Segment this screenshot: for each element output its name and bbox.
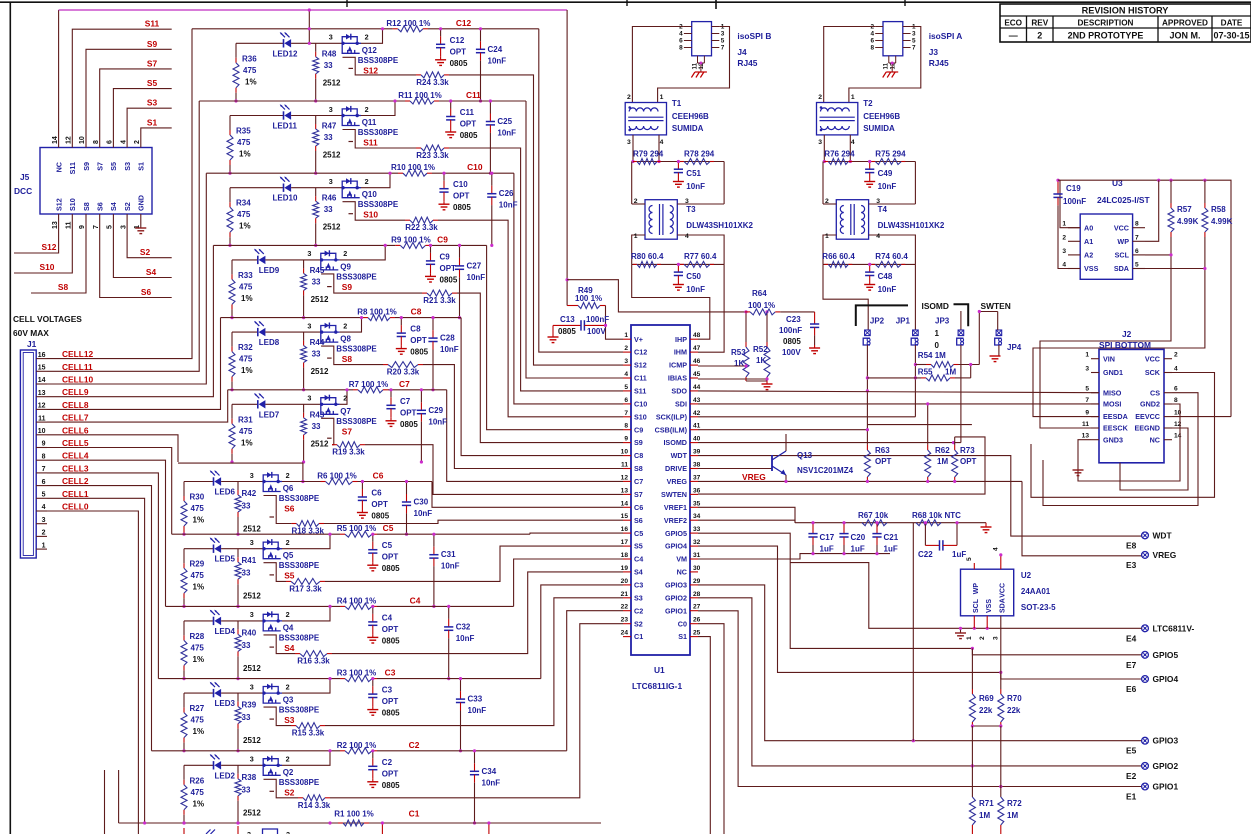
J5 GND pin wire: [140, 214, 142, 228]
jumper JP3: [960, 311, 962, 330]
svg-text:23: 23: [621, 617, 629, 624]
wire net S11: [72, 29, 171, 147]
resistor R22 3.3k: [405, 219, 410, 221]
svg-text:R68 10k NTC: R68 10k NTC: [912, 511, 961, 520]
svg-text:13: 13: [1082, 433, 1090, 440]
svg-text:APPROVED: APPROVED: [1162, 19, 1208, 28]
svg-text:475: 475: [239, 282, 253, 291]
wire net S8 to U1 pin 11: [423, 365, 623, 469]
svg-text:BSS308PE: BSS308PE: [336, 417, 377, 426]
svg-text:07-30-15: 07-30-15: [1213, 31, 1249, 41]
svg-text:3: 3: [250, 755, 254, 764]
svg-text:475: 475: [191, 643, 205, 652]
wire net C10 rail: [206, 172, 398, 174]
svg-text:R3 100 1%: R3 100 1%: [337, 669, 377, 678]
wire LED row 9: [232, 259, 258, 261]
svg-text:21: 21: [621, 591, 629, 598]
svg-text:1%: 1%: [241, 366, 253, 375]
svg-text:5: 5: [721, 38, 725, 45]
svg-text:OPT: OPT: [440, 264, 457, 273]
svg-text:JP1: JP1: [896, 317, 911, 326]
wire V+ branch to R64: [567, 280, 745, 312]
svg-text:475: 475: [191, 571, 205, 580]
wire: [221, 620, 263, 622]
svg-text:C32: C32: [456, 622, 471, 631]
svg-text:4.99K: 4.99K: [1211, 217, 1233, 226]
svg-text:2512: 2512: [243, 664, 261, 673]
wire CELL10 riser: [47, 173, 206, 384]
wire net S4 to U1 pin 19: [332, 572, 623, 654]
svg-text:4: 4: [1174, 366, 1178, 373]
svg-text:R10 100 1%: R10 100 1%: [391, 163, 435, 172]
resistor R21 3.3k: [422, 292, 427, 294]
svg-text:100V: 100V: [782, 348, 801, 357]
svg-text:CELL7: CELL7: [62, 413, 89, 423]
resistor R4 100 1%: [340, 605, 345, 607]
U1 pin 39 WDT: [690, 455, 698, 457]
wire net S1: [141, 128, 172, 148]
svg-text:OPT: OPT: [382, 625, 399, 634]
svg-text:1: 1: [660, 94, 664, 101]
wire net C3 rail right: [377, 678, 541, 680]
LED2: [213, 761, 215, 769]
svg-text:2512: 2512: [323, 78, 341, 87]
svg-text:4: 4: [993, 547, 1000, 551]
wire: [221, 692, 263, 694]
svg-text:ISOMD: ISOMD: [663, 438, 687, 447]
bracket ISOMD: [856, 305, 908, 326]
svg-text:E5: E5: [1126, 746, 1137, 756]
svg-text:R54 1M: R54 1M: [918, 351, 946, 360]
svg-text:33: 33: [242, 502, 251, 511]
svg-text:33: 33: [312, 350, 321, 359]
svg-text:C33: C33: [468, 695, 483, 704]
svg-text:39: 39: [693, 449, 701, 456]
wire net C12 rail right: [428, 28, 539, 30]
wire J4 pin1 to T1: [658, 27, 730, 103]
wire net GPIO5: [698, 533, 1142, 655]
resistor R75: [871, 161, 875, 163]
svg-text:S8: S8: [58, 282, 69, 292]
svg-text:CELL4: CELL4: [62, 451, 89, 461]
svg-text:JON M.: JON M.: [1169, 31, 1200, 41]
ground R52: [766, 381, 768, 384]
pad E8 WDT: [1142, 532, 1149, 539]
wire net S4 gate rail: [264, 635, 296, 654]
wire net S12 to U1 pin 3: [449, 75, 623, 365]
capacitor C9 OPT 0805: [430, 245, 432, 253]
transistor Q8 BSS308PE: [321, 326, 336, 333]
resistor R53 1K: [745, 312, 747, 342]
U3 pin 6 SCL: [1133, 254, 1145, 256]
svg-text:45: 45: [693, 371, 701, 378]
wire: [265, 331, 320, 333]
svg-text:R8 100 1%: R8 100 1%: [357, 308, 397, 317]
resistor R39 33 2512: [237, 693, 239, 702]
capacitor C49 10nF: [869, 162, 871, 170]
U1 pin 13 S7: [623, 493, 631, 495]
wire net GPIO4: [698, 546, 1142, 679]
wire net S5: [113, 89, 171, 148]
svg-text:SDA: SDA: [1114, 264, 1129, 273]
svg-text:1%: 1%: [239, 222, 251, 231]
transistor Q6 BSS308PE: [263, 475, 278, 482]
LED3: [213, 689, 215, 697]
svg-text:R53: R53: [731, 348, 746, 357]
resistor R74: [871, 263, 875, 265]
svg-text:1uF: 1uF: [851, 545, 865, 554]
svg-text:2: 2: [624, 345, 628, 352]
svg-text:OPT: OPT: [410, 336, 427, 345]
svg-text:C29: C29: [428, 406, 443, 415]
resistor R67 10k: [862, 520, 887, 526]
svg-text:R75 294: R75 294: [875, 150, 906, 159]
U1 pin 28 GPIO2: [690, 597, 698, 599]
svg-text:S5: S5: [284, 571, 295, 581]
svg-text:10nF: 10nF: [497, 129, 516, 138]
svg-text:10nF: 10nF: [456, 634, 475, 643]
wire net S11 to U1 pin 5: [449, 148, 623, 391]
wire net C4 rail: [166, 605, 341, 607]
J1 pin 10: [36, 434, 47, 436]
resistor R54 1M: [915, 364, 926, 366]
resistor R33 475 1%: [231, 260, 233, 275]
svg-text:C3: C3: [385, 668, 396, 678]
resistor R62 1M: [927, 445, 929, 450]
U1 pin 15 S6: [623, 519, 631, 521]
svg-text:2512: 2512: [243, 592, 261, 601]
capacitor C50 10nF: [677, 264, 679, 272]
wire rail R79: [632, 161, 724, 163]
svg-text:1: 1: [825, 233, 829, 240]
svg-text:C17: C17: [820, 533, 835, 542]
svg-text:isoSPI B: isoSPI B: [737, 31, 771, 41]
resistor R2 100 1%: [340, 750, 345, 752]
wire: [221, 764, 263, 766]
wire Q13 emitter: [785, 475, 787, 481]
LED12: [283, 39, 285, 47]
svg-text:1uF: 1uF: [952, 550, 966, 559]
U1 pin 22 C2: [623, 610, 631, 612]
svg-text:Q6: Q6: [283, 484, 294, 493]
svg-text:S8: S8: [82, 202, 91, 211]
wire net C6 rail: [178, 463, 303, 481]
page border left: [9, 2, 11, 834]
wire net V+ vertical: [566, 10, 568, 306]
wire net VREF1: [698, 507, 795, 522]
wire net S3 to U1 pin 21: [325, 598, 623, 726]
svg-text:0805: 0805: [382, 636, 400, 645]
wire rail R66: [823, 263, 915, 265]
svg-text:5: 5: [107, 225, 114, 229]
svg-text:3: 3: [250, 682, 254, 691]
svg-text:CSB(ILM): CSB(ILM): [655, 425, 688, 434]
svg-text:LED4: LED4: [215, 627, 236, 636]
U1 pin 1 V+: [623, 338, 631, 340]
J1 pin 12: [36, 408, 47, 410]
resistor R32 475 1%: [231, 332, 233, 347]
svg-text:2: 2: [1037, 31, 1042, 41]
wire net C4 rail right: [377, 605, 514, 607]
svg-text:GPIO1: GPIO1: [665, 606, 687, 615]
resistor R64 100 1%: [745, 311, 750, 313]
wire: [914, 162, 916, 205]
U1 pin 48 IHP: [690, 338, 698, 340]
svg-text:2: 2: [343, 321, 347, 330]
wire net C10 rail right: [432, 172, 514, 174]
svg-text:3: 3: [912, 31, 916, 38]
wire CELL3 dropper: [47, 473, 158, 679]
svg-text:3: 3: [1062, 248, 1066, 255]
ground C12: [440, 57, 442, 60]
ground C2: [372, 779, 374, 782]
wire LED row 2: [184, 764, 214, 766]
wire V+ to U1 pin 1: [606, 306, 624, 340]
J2 pin 12 EEGND: [1164, 427, 1172, 429]
wire: [265, 403, 320, 405]
svg-text:4: 4: [624, 371, 628, 378]
svg-text:0805: 0805: [460, 131, 478, 140]
svg-text:C3: C3: [634, 581, 643, 590]
svg-text:3: 3: [818, 139, 822, 146]
wire: [221, 481, 263, 483]
svg-text:S7: S7: [634, 490, 643, 499]
wire: [265, 259, 320, 261]
svg-text:R39: R39: [242, 701, 257, 710]
pad E7 GPIO5: [1142, 651, 1149, 658]
wire net S10: [14, 214, 72, 273]
U1 pin 2 C12: [623, 351, 631, 353]
svg-text:38: 38: [693, 462, 701, 469]
ground C8: [400, 346, 402, 349]
LED9: [257, 256, 259, 264]
svg-text:5: 5: [1085, 386, 1089, 393]
resistor R40 33 2512: [237, 621, 239, 630]
wire net C11 to U1 pin 4: [526, 101, 623, 378]
svg-text:Q5: Q5: [283, 551, 294, 560]
svg-text:35: 35: [693, 500, 701, 507]
ground JP4: [990, 355, 1001, 357]
U2 pin 2 VSS: [986, 616, 988, 629]
svg-text:BSS308PE: BSS308PE: [336, 345, 377, 354]
svg-text:18: 18: [621, 552, 629, 559]
svg-text:1%: 1%: [193, 655, 205, 664]
capacitor C5 OPT 0805: [372, 534, 374, 542]
svg-text:5: 5: [966, 557, 973, 561]
transistor Q7 BSS308PE: [321, 398, 336, 405]
svg-text:C4: C4: [382, 613, 393, 622]
wire net EEGND: [1120, 428, 1188, 490]
svg-text:36: 36: [693, 487, 701, 494]
svg-text:R22 3.3k: R22 3.3k: [405, 223, 438, 232]
svg-text:2: 2: [343, 249, 347, 258]
wire net S2: [127, 214, 172, 258]
resistor R76: [824, 161, 828, 163]
wire net S6 gate rail: [264, 496, 292, 524]
svg-text:OPT: OPT: [382, 697, 399, 706]
svg-text:10: 10: [38, 428, 46, 435]
U1 pin 25 S1: [690, 636, 698, 638]
wire: [221, 548, 263, 550]
svg-text:WDT: WDT: [1153, 530, 1173, 540]
wire mid run: [867, 424, 972, 426]
svg-text:100nF: 100nF: [1063, 197, 1086, 206]
wire net WDT: [698, 456, 1142, 536]
svg-text:24: 24: [621, 630, 629, 637]
wire net SWTEN run: [698, 437, 985, 494]
svg-text:SCL: SCL: [973, 598, 980, 613]
wire R62 top: [927, 404, 929, 445]
ground C7: [390, 418, 392, 421]
svg-text:10nF: 10nF: [428, 417, 447, 426]
wire: [869, 203, 916, 205]
wire net GPIO2: [698, 598, 1142, 766]
transistor Q2 BSS308PE: [263, 759, 278, 766]
U1 pin 44 SDO: [690, 390, 698, 392]
svg-text:S8: S8: [634, 464, 643, 473]
svg-text:43: 43: [693, 397, 701, 404]
svg-text:9: 9: [624, 436, 628, 443]
svg-text:RJ45: RJ45: [737, 58, 757, 68]
resistor R57 4.99K: [1170, 180, 1172, 203]
U1 pin 20 C3: [623, 584, 631, 586]
svg-text:3: 3: [329, 105, 333, 114]
svg-text:WDT: WDT: [671, 451, 688, 460]
svg-text:4: 4: [851, 139, 855, 146]
svg-text:16: 16: [38, 352, 46, 359]
svg-text:R73: R73: [960, 446, 975, 455]
wire net CSB: [698, 429, 867, 431]
svg-text:R36: R36: [242, 54, 257, 63]
wire net S2 gate rail: [264, 779, 299, 798]
wire LED row 11: [230, 115, 284, 117]
U3 pin 5 SDA: [1133, 268, 1145, 270]
svg-text:R34: R34: [236, 199, 251, 208]
resistor R47 33 2512: [315, 116, 317, 125]
wire net S10 gate rail: [343, 202, 406, 221]
svg-text:R2 100 1%: R2 100 1%: [337, 741, 377, 750]
svg-text:C5: C5: [634, 529, 643, 538]
wire CELL6 dropper: [47, 435, 178, 462]
svg-text:J5: J5: [20, 172, 30, 182]
svg-text:28: 28: [693, 591, 701, 598]
svg-text:C30: C30: [414, 498, 429, 507]
U1 pin 10 C8: [623, 455, 631, 457]
capacitor C10 OPT 0805: [443, 173, 445, 181]
svg-text:2: 2: [634, 198, 638, 205]
wire net C10 to U1 pin 6: [514, 173, 623, 404]
svg-text:R30: R30: [190, 493, 205, 502]
wire column down: [971, 726, 973, 797]
svg-text:33: 33: [242, 785, 251, 794]
pad E6 GPIO4: [1142, 676, 1149, 683]
transformer T3 DLW43SH101XK2: [645, 200, 677, 240]
J2 pin 8 GND2: [1164, 403, 1172, 405]
svg-text:14: 14: [52, 136, 59, 144]
svg-text:T1: T1: [672, 99, 682, 108]
svg-text:2: 2: [286, 682, 290, 691]
svg-text:SWTEN: SWTEN: [661, 490, 687, 499]
U1 pin 21 S3: [623, 597, 631, 599]
svg-text:3: 3: [876, 198, 880, 205]
wire J3 pin1 to T2: [849, 27, 921, 103]
svg-text:30: 30: [693, 565, 701, 572]
wire net C9 rail: [213, 244, 395, 246]
svg-text:3: 3: [329, 33, 333, 42]
svg-text:25: 25: [693, 630, 701, 637]
svg-text:S2: S2: [140, 247, 151, 257]
resistor R9 100 1%: [395, 244, 400, 246]
svg-text:S7: S7: [342, 426, 353, 436]
svg-text:1%: 1%: [193, 727, 205, 736]
svg-text:0805: 0805: [558, 327, 576, 336]
J1 pin 3: [36, 523, 47, 525]
svg-text:6: 6: [107, 140, 114, 144]
svg-text:2: 2: [627, 94, 631, 101]
svg-text:A0: A0: [1084, 223, 1093, 232]
jumper JP1: [913, 330, 919, 336]
svg-text:3: 3: [120, 225, 127, 229]
svg-text:C28: C28: [440, 334, 455, 343]
wire net C2 to U1 pin 22: [567, 611, 623, 751]
wire R52 R53 join: [746, 380, 767, 382]
ground C49: [869, 178, 871, 182]
resistor R70 22k: [1000, 672, 1002, 689]
wire LED row 10: [230, 187, 284, 189]
svg-text:S10: S10: [363, 210, 378, 220]
resistor R26 475 1%: [183, 765, 185, 780]
wire LED row 8: [232, 331, 258, 333]
wire net C9 rail right: [431, 244, 487, 246]
svg-text:EESDA: EESDA: [1103, 412, 1128, 421]
svg-text:CELL VOLTAGES: CELL VOLTAGES: [13, 314, 82, 324]
svg-text:V+: V+: [634, 335, 643, 344]
wire stub: [118, 770, 120, 823]
svg-text:2512: 2512: [311, 439, 329, 448]
svg-text:R63: R63: [875, 446, 890, 455]
J2 pin 3 GND1: [1091, 372, 1099, 374]
svg-text:9: 9: [42, 441, 46, 448]
svg-text:C20: C20: [851, 533, 866, 542]
wire net SDA: [1033, 269, 1205, 417]
zone tick: [904, 0, 906, 6]
svg-text:JP4: JP4: [1007, 343, 1022, 352]
wire Q11 drain to rail: [361, 101, 395, 116]
wire net VREG rail: [698, 480, 1022, 482]
wire T2 pin4: [849, 135, 851, 162]
svg-text:R26: R26: [190, 776, 205, 785]
svg-text:LED3: LED3: [215, 699, 236, 708]
svg-text:E1: E1: [1126, 792, 1137, 802]
svg-text:CELL3: CELL3: [62, 463, 89, 473]
wire net S9 gate rail: [321, 274, 422, 293]
U3 pin 7 WP: [1133, 240, 1145, 242]
svg-text:VM: VM: [676, 555, 687, 564]
svg-text:20: 20: [621, 578, 629, 585]
U1 pin 24 C1: [623, 636, 631, 638]
wire net S4: [113, 214, 171, 278]
wire Q4 drain to rail: [282, 606, 330, 621]
wire: [823, 235, 836, 264]
svg-text:6: 6: [679, 38, 683, 45]
svg-text:R74 60.4: R74 60.4: [875, 252, 908, 261]
wire net S6: [100, 214, 172, 298]
svg-text:E4: E4: [1126, 633, 1137, 643]
svg-text:VIN: VIN: [1103, 354, 1115, 363]
svg-text:IHP: IHP: [675, 335, 687, 344]
svg-text:2512: 2512: [243, 808, 261, 817]
transistor Q4 BSS308PE: [263, 614, 278, 621]
